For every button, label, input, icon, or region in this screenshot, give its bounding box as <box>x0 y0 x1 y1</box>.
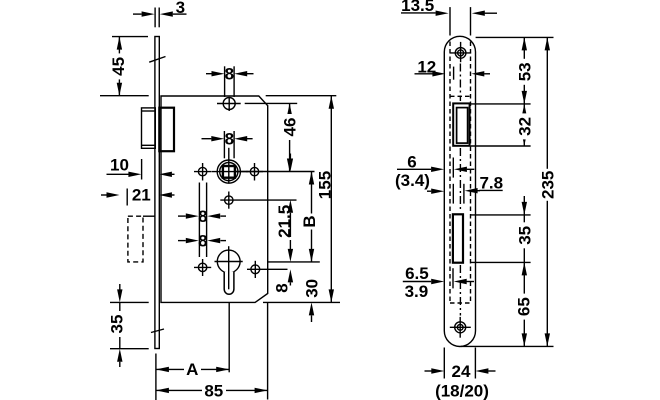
svg-text:35: 35 <box>108 315 127 334</box>
svg-text:13.5: 13.5 <box>401 0 434 15</box>
lock case behind plate (dashed) <box>450 42 471 304</box>
latch bolt body inside case <box>159 108 174 152</box>
dimension 24 (plate width) <box>425 348 496 382</box>
dimension 45 (plate top to case top) <box>100 37 149 96</box>
extension line top hole right <box>245 102 298 104</box>
faceplate break tick lower <box>151 329 164 333</box>
follower (spindle hub) <box>212 148 249 184</box>
deadbolt window <box>453 214 463 262</box>
faceplate front view (stadium outline) <box>444 36 475 346</box>
svg-text:8: 8 <box>198 207 207 226</box>
extension line plate bottom left <box>155 354 157 400</box>
euro profile cylinder hole <box>215 246 243 294</box>
dimension A (backset) <box>156 360 229 379</box>
extension line cylinder centre right <box>268 261 320 263</box>
bottom plate screw hole <box>450 317 471 338</box>
follower right screw hole <box>246 163 263 181</box>
svg-text:35: 35 <box>515 226 534 245</box>
faceplate side view <box>155 37 159 349</box>
svg-text:6.5: 6.5 <box>405 264 429 283</box>
extension line latch window top <box>471 103 531 105</box>
hole pitch guide lines (left 8 dims) <box>199 183 206 258</box>
dimension 35 (case bottom to plate bottom) <box>108 284 149 367</box>
extension line deadbolt window bottom <box>470 261 530 263</box>
plate centreline <box>459 64 461 316</box>
dimension 155 (case height) <box>316 96 335 303</box>
svg-text:24: 24 <box>452 362 471 381</box>
dimension 6 (3.4) <box>395 152 474 190</box>
svg-text:46: 46 <box>281 118 300 137</box>
dimension 8 above top hole (spindle square) <box>206 65 254 97</box>
dimension 46 (top hole to follower) <box>281 103 300 171</box>
extension line deadbolt window top <box>470 214 530 216</box>
svg-text:(3.4): (3.4) <box>395 171 430 190</box>
dimension 13.5 <box>401 0 497 16</box>
measurement tick 6.5 row <box>452 268 454 288</box>
dimension 6.5 / 3.9 <box>403 264 474 301</box>
svg-text:6: 6 <box>407 152 416 171</box>
top fixing hole <box>217 97 241 111</box>
dimension 8 upper (hole spacing) <box>178 207 226 226</box>
svg-text:8: 8 <box>225 65 234 84</box>
extension line plate bottom right <box>461 345 554 347</box>
svg-text:10: 10 <box>110 155 129 174</box>
svg-text:7.8: 7.8 <box>479 173 503 192</box>
svg-text:B: B <box>300 215 319 227</box>
label (18/20) <box>435 381 489 400</box>
dimension 8 above follower <box>202 130 253 159</box>
dimension 235 (plate length) <box>539 37 558 346</box>
follower left screw hole <box>194 163 211 181</box>
extension line case top right <box>266 95 337 97</box>
dimension 21.5 (follower to hole below) <box>275 154 294 238</box>
hole below follower <box>220 192 296 209</box>
dimension 7.8 <box>427 173 503 194</box>
dimension B (follower to cylinder) <box>300 172 319 262</box>
faceplate break tick upper <box>149 57 165 63</box>
top plate screw hole <box>450 42 471 62</box>
latch bolt head (protruding) <box>142 108 156 148</box>
svg-text:8: 8 <box>272 283 291 292</box>
latch window <box>453 103 469 145</box>
svg-text:A: A <box>186 360 198 379</box>
recess extension lines above plate <box>450 7 471 35</box>
svg-text:8: 8 <box>198 232 207 251</box>
svg-text:3.9: 3.9 <box>405 282 429 301</box>
svg-text:30: 30 <box>302 279 321 298</box>
dimension 85 (case width) <box>156 381 268 400</box>
svg-text:85: 85 <box>204 381 223 400</box>
measurement tick 6 row <box>452 158 454 178</box>
svg-text:8: 8 <box>225 130 234 149</box>
svg-text:12: 12 <box>417 57 436 76</box>
dimension 35 (deadbolt window height) <box>515 196 534 275</box>
svg-text:3: 3 <box>176 0 185 17</box>
extension line case right down <box>267 302 269 399</box>
extension line case bottom right <box>263 301 340 303</box>
cylinder left screw hole <box>194 259 211 276</box>
svg-text:21: 21 <box>132 185 151 204</box>
svg-text:65: 65 <box>515 297 534 316</box>
svg-text:235: 235 <box>539 171 558 199</box>
dimension 53 <box>515 37 534 104</box>
dimension 3 (faceplate thickness) <box>133 0 187 27</box>
extension line latch window bottom <box>471 145 531 147</box>
svg-text:21.5: 21.5 <box>275 205 294 238</box>
dimension 21 (deadbolt throw) <box>101 185 175 205</box>
cylinder right screw hole <box>247 261 288 278</box>
svg-text:(18/20): (18/20) <box>435 381 489 400</box>
dimension 10 (latch projection) <box>107 155 175 179</box>
deadbolt (dashed, retracted) <box>128 216 155 262</box>
dimension 30 (cylinder to case bottom) <box>302 279 321 322</box>
dimension 8 lower (hole spacing) <box>178 232 226 251</box>
svg-text:155: 155 <box>316 171 335 199</box>
svg-text:53: 53 <box>515 62 534 81</box>
extension line plate top right <box>476 36 554 38</box>
lock case outline <box>161 96 268 302</box>
dimension 12 <box>415 57 491 79</box>
svg-text:45: 45 <box>109 57 128 76</box>
dimension 8 (cylinder centre to screw hole) <box>272 240 293 293</box>
measurement ticks 7.8 row <box>453 184 464 204</box>
svg-text:32: 32 <box>515 117 534 136</box>
dimension 65 <box>515 262 534 346</box>
extension line follower right <box>236 171 315 173</box>
dimension 32 <box>515 104 534 146</box>
extension line cylinder centre down <box>228 302 230 372</box>
